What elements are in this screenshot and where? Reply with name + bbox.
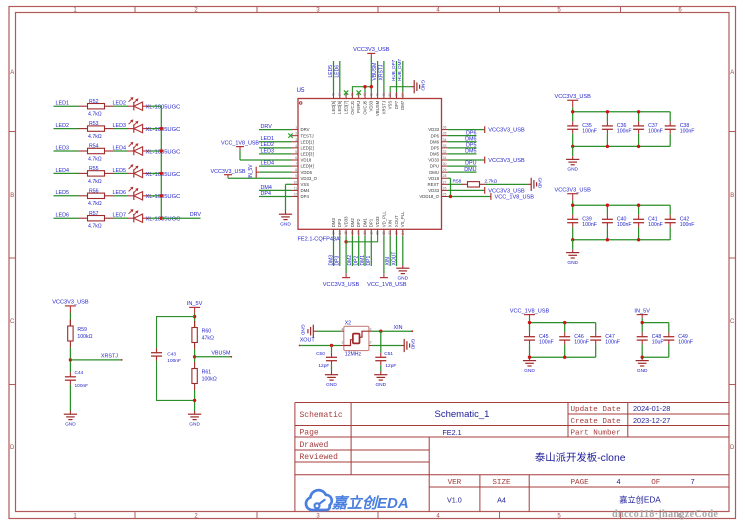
svg-text:4: 4 <box>295 144 297 148</box>
svg-text:GND: GND <box>524 368 535 374</box>
pin 26 VD33 <box>428 186 448 193</box>
svg-text:8: 8 <box>295 168 297 172</box>
svg-text:100nF: 100nF <box>539 339 554 345</box>
node LED4 <box>259 160 292 166</box>
svg-text:VBUSM: VBUSM <box>372 63 378 81</box>
svg-text:B: B <box>10 193 14 199</box>
power VCC3V3_USB (pin 42 VD33) <box>353 47 390 92</box>
svg-text:21: 21 <box>382 231 386 235</box>
svg-text:GND: GND <box>375 382 386 388</box>
svg-text:VDD18_O: VDD18_O <box>419 194 439 199</box>
pin 46 LED[7] <box>344 92 349 114</box>
svg-text:Schematic_1: Schematic_1 <box>435 409 490 420</box>
svg-text:2: 2 <box>295 132 297 136</box>
pin 42 VD33 <box>369 92 374 112</box>
junction <box>528 321 531 324</box>
svg-text:42: 42 <box>369 93 373 97</box>
svg-text:SIZE: SIZE <box>492 479 511 487</box>
junction <box>363 85 366 88</box>
resistor R58 2.7k <box>448 178 528 187</box>
svg-text:100nF: 100nF <box>678 339 693 345</box>
svg-text:DM5: DM5 <box>465 149 476 155</box>
power IN_5V (R60 chain) <box>187 301 203 327</box>
ground (R58) <box>528 183 531 185</box>
svg-text:19: 19 <box>369 231 373 235</box>
title block text <box>300 404 695 504</box>
svg-text:10uF: 10uF <box>652 339 664 345</box>
svg-text:X2: X2 <box>345 321 351 327</box>
svg-text:XRSTJ: XRSTJ <box>381 101 386 115</box>
node LED3 <box>113 123 129 129</box>
svg-text:LED6: LED6 <box>334 65 340 78</box>
pin 4 LED[2] <box>292 144 314 151</box>
junction <box>160 149 163 152</box>
svg-text:IN_5V: IN_5V <box>248 164 254 179</box>
logo JLC EDA <box>306 490 409 512</box>
svg-text:35: 35 <box>443 132 447 136</box>
wire <box>194 390 196 411</box>
power VCC3V3_USB (pin 31) <box>448 157 525 164</box>
capacitor C47 100nF <box>590 323 620 358</box>
wire <box>150 105 161 107</box>
svg-text:REXT: REXT <box>428 182 440 187</box>
svg-text:10: 10 <box>293 180 297 184</box>
svg-text:37: 37 <box>401 93 405 97</box>
pin 40 XRSTJ <box>381 92 386 114</box>
power VCC3V3_USB <box>555 94 592 112</box>
svg-text:100nF: 100nF <box>574 339 589 345</box>
svg-text:7: 7 <box>691 477 695 486</box>
svg-text:41: 41 <box>376 93 380 97</box>
pin 11 DM4 <box>292 186 311 193</box>
node DP2 (pin 17) <box>354 236 360 266</box>
pin 18 DM1 <box>362 218 367 236</box>
pin 13 DM3 <box>331 218 336 236</box>
svg-text:9: 9 <box>295 174 297 178</box>
svg-text:DM2: DM2 <box>350 218 355 228</box>
svg-text:6: 6 <box>295 156 297 160</box>
svg-text:7: 7 <box>295 162 297 166</box>
svg-text:VCC3V3_USB: VCC3V3_USB <box>210 169 245 175</box>
svg-text:3: 3 <box>295 138 297 142</box>
svg-text:DP3: DP3 <box>337 218 342 227</box>
svg-text:泰山派开发板-clone: 泰山派开发板-clone <box>535 451 626 464</box>
wire C43 parallel loop <box>157 317 195 352</box>
svg-text:GND: GND <box>326 382 337 388</box>
pin 34 DM6 <box>430 138 448 145</box>
LED D4 XL-1005UGC <box>128 164 180 178</box>
node LED6 <box>54 213 79 219</box>
node XOUT (X2 pin 1) <box>299 338 344 347</box>
svg-text:B: B <box>730 193 734 199</box>
pin 47 LED[6] <box>337 92 342 114</box>
pin 14 DP3 <box>337 218 342 236</box>
pin 32 DM5 <box>430 150 448 157</box>
svg-text:VS_PLL: VS_PLL <box>400 211 405 227</box>
capacitor C45 100nF <box>524 323 554 358</box>
svg-text:A: A <box>730 70 734 76</box>
svg-text:4.7kΩ: 4.7kΩ <box>88 156 102 162</box>
svg-text:DP4: DP4 <box>261 191 272 197</box>
pin 44 PWRJ <box>356 92 361 113</box>
svg-text:36: 36 <box>443 126 447 130</box>
node XRSTJ (pin 40) <box>378 61 384 92</box>
junction <box>160 172 163 175</box>
svg-text:XOUT: XOUT <box>394 215 399 227</box>
pin 30 DPU <box>430 162 448 169</box>
svg-text:100kΩ: 100kΩ <box>202 376 217 382</box>
svg-text:100nF: 100nF <box>582 129 597 135</box>
LED D3 XL-1005UGC <box>128 142 180 156</box>
svg-text:OVCJ5: OVCJ5 <box>362 100 367 114</box>
svg-text:VD33: VD33 <box>369 100 374 111</box>
svg-text:GND: GND <box>420 80 426 91</box>
ground (pin 39 VSS) <box>390 80 425 93</box>
svg-text:4.7kΩ: 4.7kΩ <box>88 224 102 230</box>
svg-text:DP4: DP4 <box>301 194 310 199</box>
svg-text:R58: R58 <box>453 178 462 184</box>
wire <box>69 348 71 373</box>
svg-text:VCC3V3_USB: VCC3V3_USB <box>555 188 592 194</box>
svg-text:LED5: LED5 <box>328 65 334 78</box>
svg-text:VCC3V3_USB: VCC3V3_USB <box>488 158 525 164</box>
wire VD33 pin 20 jog <box>346 236 378 242</box>
junction <box>641 321 644 324</box>
pin 1 DRV <box>292 126 310 133</box>
ground (C50) <box>331 372 333 375</box>
svg-text:DPU: DPU <box>430 164 439 169</box>
pin 35 DP6 <box>431 132 448 139</box>
LED D6 XL-1005UGC <box>128 209 180 223</box>
svg-text:GND: GND <box>397 275 408 281</box>
pin 7 LED[4] <box>292 162 314 169</box>
svg-text:48: 48 <box>332 93 336 97</box>
junction <box>637 110 640 113</box>
svg-text:DM5: DM5 <box>430 152 440 157</box>
capacitor C35 100nF <box>567 112 597 147</box>
svg-text:VCC_1V8_USB: VCC_1V8_USB <box>221 140 259 146</box>
ground (VCC_1V8_USB bank) <box>523 357 536 374</box>
svg-text:Update Date: Update Date <box>571 406 622 414</box>
svg-text:DRV: DRV <box>301 127 310 132</box>
capacitor C43 100nF <box>151 348 181 364</box>
svg-text:XL-1005UGC: XL-1005UGC <box>146 172 181 178</box>
svg-text:45: 45 <box>350 93 354 97</box>
svg-text:VCC3V3_USB: VCC3V3_USB <box>323 282 360 288</box>
svg-text:100nF: 100nF <box>648 129 663 135</box>
svg-text:VCC3V3_USB: VCC3V3_USB <box>488 128 525 134</box>
svg-text:VSS: VSS <box>388 101 393 110</box>
junction <box>160 217 163 220</box>
wire <box>194 349 196 362</box>
capacitor C40 100nF <box>602 205 632 240</box>
svg-text:25: 25 <box>443 192 447 196</box>
svg-text:PAGE: PAGE <box>571 479 590 487</box>
svg-text:12: 12 <box>293 192 297 196</box>
node LED5 <box>54 190 79 196</box>
svg-text:LED3: LED3 <box>261 148 275 154</box>
svg-text:C50: C50 <box>316 351 325 357</box>
node LED7 <box>113 213 129 219</box>
junction <box>571 204 574 207</box>
pin 2 TESTJ <box>292 132 314 139</box>
svg-text:DP5: DP5 <box>431 145 440 150</box>
svg-text:HUB_DP7: HUB_DP7 <box>391 59 396 81</box>
svg-text:DP3: DP3 <box>335 256 341 266</box>
node LED6 <box>113 190 129 196</box>
svg-text:A4: A4 <box>497 495 506 504</box>
svg-text:Drawed: Drawed <box>300 441 329 450</box>
svg-text:47kΩ: 47kΩ <box>202 335 214 341</box>
node HUB_DP7 (pin 38) <box>391 59 397 92</box>
wire bottom rail <box>642 356 669 358</box>
node DP4 <box>259 191 292 197</box>
svg-text:GND: GND <box>189 421 200 427</box>
no-connect PWRJ <box>357 90 361 94</box>
pin 10 VSS <box>292 180 310 187</box>
svg-text:GND: GND <box>567 167 578 173</box>
node XIN (pin 22) <box>385 236 391 266</box>
svg-text:TESTJ: TESTJ <box>301 133 314 138</box>
pin 5 LED[3] <box>292 150 314 157</box>
node DM2 (pin 16) <box>347 236 353 266</box>
svg-text:OF: OF <box>651 479 661 487</box>
svg-text:DP6: DP6 <box>431 133 440 138</box>
svg-text:VCC3V3_USB: VCC3V3_USB <box>555 94 592 100</box>
svg-text:11: 11 <box>294 186 298 190</box>
node LED4 <box>54 168 79 174</box>
ground (R61) <box>194 411 196 414</box>
svg-text:DP7: DP7 <box>394 100 399 109</box>
wire top rail <box>642 322 669 324</box>
node DM5 <box>448 149 477 155</box>
pin 25 VDD18_O <box>419 192 448 199</box>
svg-text:DMU: DMU <box>464 167 476 173</box>
svg-text:4: 4 <box>616 477 620 486</box>
svg-text:LED[7]: LED[7] <box>344 101 349 114</box>
node XRSTJ <box>70 354 122 361</box>
svg-text:GND: GND <box>300 324 306 335</box>
power VCC_1V8_USB (pin 6 VD18) <box>221 140 292 160</box>
resistor R61 100k <box>194 362 196 369</box>
wire OVCJ1 tie <box>352 87 371 92</box>
svg-text:39: 39 <box>388 93 392 97</box>
capacitor C36 100nF <box>602 112 632 147</box>
power VCC_1V8_USB (pin 25 VDD18_O) <box>448 193 534 200</box>
svg-text:13: 13 <box>332 231 336 235</box>
svg-text:XL-1005UGC: XL-1005UGC <box>146 194 181 200</box>
svg-text:DP1: DP1 <box>369 218 374 227</box>
svg-text:20: 20 <box>376 231 380 235</box>
resistor R57 <box>79 211 114 230</box>
svg-text:2024-01-28: 2024-01-28 <box>633 404 670 413</box>
svg-text:VCC3V3_USB: VCC3V3_USB <box>52 300 89 306</box>
no-connect TESTJ <box>288 133 292 137</box>
node DPU <box>448 161 477 167</box>
svg-text:GND: GND <box>280 221 291 227</box>
node DP5 <box>448 142 477 148</box>
junction <box>606 110 609 113</box>
svg-text:DP1: DP1 <box>366 256 372 266</box>
svg-text:R57: R57 <box>89 211 99 217</box>
svg-text:5: 5 <box>295 150 297 154</box>
svg-text:DP2: DP2 <box>356 218 361 227</box>
power VCC_1V8_USB <box>510 308 550 322</box>
ground (C51) <box>380 372 382 375</box>
svg-text:C51: C51 <box>384 351 393 357</box>
pin 37 DM7 <box>400 92 405 110</box>
wire OVCJ5 tie <box>364 87 366 92</box>
svg-text:100nF: 100nF <box>582 222 597 228</box>
svg-text:VCC3V3_USB: VCC3V3_USB <box>353 47 390 53</box>
svg-text:100nF: 100nF <box>680 129 695 135</box>
svg-text:DMU: DMU <box>429 170 439 175</box>
pin 39 VSS <box>388 92 393 109</box>
svg-text:29: 29 <box>443 168 447 172</box>
capacitor C37 100nF <box>633 112 663 147</box>
node LED3 <box>54 145 79 151</box>
svg-text:LED[2]: LED[2] <box>301 145 314 150</box>
svg-text:DM1: DM1 <box>360 255 366 266</box>
pin 9 VD33_O <box>292 174 318 181</box>
svg-text:40: 40 <box>382 93 386 97</box>
svg-text:12MHz: 12MHz <box>345 351 362 357</box>
svg-text:VCC_1V8_USB: VCC_1V8_USB <box>367 282 407 288</box>
svg-text:2: 2 <box>370 341 372 345</box>
op-amp U5 FE2.1-CQFP48A (USB hub IC body) <box>297 87 442 242</box>
svg-text:LED[4]: LED[4] <box>301 164 314 169</box>
svg-text:Schematic: Schematic <box>300 411 343 420</box>
svg-text:VER: VER <box>448 479 462 487</box>
svg-text:100nF: 100nF <box>617 222 632 228</box>
svg-text:DM2: DM2 <box>347 255 353 266</box>
junction <box>563 321 566 324</box>
svg-text:XRSTJ: XRSTJ <box>101 354 118 360</box>
svg-text:VD33: VD33 <box>428 188 439 193</box>
pin 12 DP4 <box>292 192 310 199</box>
node DP3 (pin 14) <box>335 236 341 266</box>
capacitor C42 100nF <box>665 205 695 240</box>
ground (VCC3V3_USB bank) <box>566 146 579 172</box>
LED D2 XL-1005UGC <box>128 119 180 133</box>
svg-text:XIN: XIN <box>385 257 391 266</box>
svg-text:DM1: DM1 <box>362 218 367 228</box>
capacitor C39 100nF <box>567 205 597 240</box>
wire top rail <box>573 111 671 113</box>
junction <box>637 204 640 207</box>
svg-text:VD33: VD33 <box>428 127 439 132</box>
node XIN (X2 pin 3) <box>369 325 413 333</box>
svg-text:100nF: 100nF <box>605 339 620 345</box>
resistor R56 <box>79 188 114 207</box>
svg-text:15: 15 <box>344 231 348 235</box>
capacitor C41 100nF <box>633 205 663 240</box>
svg-text:DM3: DM3 <box>331 218 336 228</box>
svg-text:32: 32 <box>443 150 447 154</box>
svg-text:DM6: DM6 <box>430 139 440 144</box>
resistor R55 <box>79 166 114 185</box>
svg-text:DM3: DM3 <box>328 255 334 266</box>
svg-text:VD_PLL: VD_PLL <box>381 211 386 228</box>
junction <box>160 194 163 197</box>
junction <box>606 204 609 207</box>
svg-text:V1.0: V1.0 <box>447 495 462 504</box>
ground (X2 pin 4) <box>300 324 344 337</box>
svg-text:PWRJ: PWRJ <box>356 101 361 113</box>
svg-text:27: 27 <box>443 180 447 184</box>
svg-text:HUB_DM7: HUB_DM7 <box>397 59 402 81</box>
node DM3 (pin 13) <box>328 236 334 266</box>
svg-text:22: 22 <box>388 231 392 235</box>
svg-text:Part Number: Part Number <box>571 430 621 438</box>
power VCC3V3_USB (pin 26) <box>448 187 525 194</box>
node XOUT (pin 23) <box>391 236 397 266</box>
svg-text:100nF: 100nF <box>680 222 695 228</box>
svg-text:2.7kΩ: 2.7kΩ <box>485 178 498 184</box>
svg-text:XL-1005UGC: XL-1005UGC <box>146 105 181 111</box>
LED D5 XL-1005UGC <box>128 187 180 201</box>
ground (pin 24 VS_PLL) <box>396 236 409 282</box>
node DRV (pin 1) <box>259 124 292 130</box>
capacitor C46 100nF <box>559 323 589 358</box>
power VCC3V3_USB (pin 15 VD33) <box>323 236 360 288</box>
power VCC3V3_USB <box>555 188 592 206</box>
svg-text:DRV: DRV <box>190 212 202 218</box>
wire bottom rail <box>530 356 596 358</box>
pin 48 LED[5] <box>331 92 336 114</box>
svg-text:4.7kΩ: 4.7kΩ <box>88 179 102 185</box>
ground (X2 pin 2) <box>369 339 416 352</box>
wire top rail <box>530 322 596 324</box>
node LED4 <box>113 145 129 151</box>
wire top rail <box>573 204 671 206</box>
svg-text:VD33: VD33 <box>428 158 439 163</box>
resistor R59 100k <box>69 320 71 327</box>
resistor R52 <box>79 99 114 118</box>
node DM6 <box>448 136 477 142</box>
node VBUSM <box>195 351 233 358</box>
wire <box>150 150 161 152</box>
svg-text:VD33: VD33 <box>375 216 380 227</box>
node DP1 (pin 19) <box>366 236 372 266</box>
svg-text:12pF: 12pF <box>385 363 396 369</box>
wire bottom rail <box>573 145 671 147</box>
svg-text:LED[6]: LED[6] <box>337 101 342 114</box>
power IN_5V <box>634 308 650 322</box>
svg-text:dncco118·jhangzeCode: dncco118·jhangzeCode <box>612 509 718 520</box>
svg-text:XL-1005UGC: XL-1005UGC <box>146 149 181 155</box>
junction <box>193 355 196 358</box>
ground (IN_5V bank) <box>636 357 649 374</box>
svg-text:GND: GND <box>567 260 578 266</box>
pin 19 DP1 <box>369 218 374 236</box>
power IN_5V (pin 8 VDD5) <box>248 164 291 179</box>
svg-text:VD18: VD18 <box>428 176 439 181</box>
pin 45 OVCJ1 <box>350 92 355 115</box>
svg-text:1: 1 <box>295 126 297 130</box>
node HUB_DM7 (pin 37) <box>397 59 403 92</box>
pin 21 VD_PLL <box>381 211 386 236</box>
svg-text:VD33: VD33 <box>344 216 349 227</box>
svg-text:4.7kΩ: 4.7kΩ <box>88 134 102 140</box>
power VCC3V3_USB (pin 36) <box>448 126 525 133</box>
pin 28 VD18 <box>428 174 448 181</box>
wire <box>150 172 161 174</box>
svg-text:LED4: LED4 <box>261 160 275 166</box>
svg-text:R55: R55 <box>89 166 99 172</box>
wire LED bus <box>160 106 162 218</box>
svg-text:VBUSM: VBUSM <box>375 100 380 116</box>
